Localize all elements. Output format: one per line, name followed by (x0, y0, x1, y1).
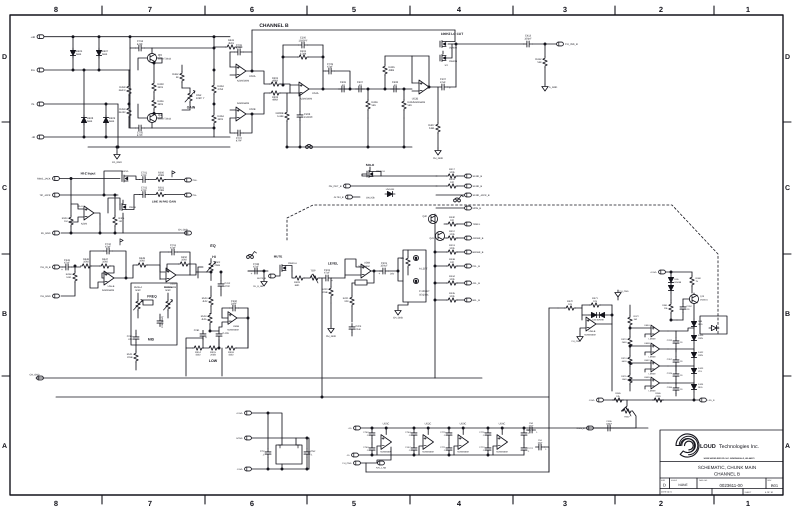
capacitor C50 filter (527, 422, 539, 434)
wire to lo out (448, 44, 456, 87)
resistor R381 20k (662, 300, 673, 320)
svg-text:UNGAIN: UNGAIN (386, 188, 395, 191)
node IN input connector J2 (31, 68, 130, 72)
capacitor C768 bot (479, 427, 491, 443)
connector -15 rail bot (346, 453, 524, 457)
svg-text:MUTE_B: MUTE_B (257, 277, 266, 280)
svg-text:47uF: 47uF (440, 81, 446, 84)
svg-text:8: 8 (54, 499, 58, 508)
svg-text:R386: R386 (655, 392, 661, 395)
resistor R370 (558, 300, 582, 310)
wire top long feedback (252, 30, 455, 52)
svg-text:2k49: 2k49 (622, 341, 628, 344)
svg-text:51k1: 51k1 (66, 276, 72, 279)
svg-text:REV.: REV. (768, 479, 773, 482)
capacitor C762 bot (363, 427, 375, 443)
svg-text:R380: R380 (696, 277, 702, 280)
capacitor C226 (61, 259, 80, 272)
svg-text:+: + (205, 336, 207, 340)
connector row4 MON (436, 206, 481, 210)
svg-text:24PF: 24PF (231, 303, 238, 306)
svg-text:20kB: 20kB (215, 264, 221, 267)
svg-text:C763: C763 (363, 446, 369, 449)
ic U57 regulator box (276, 441, 302, 464)
svg-text:R372: R372 (634, 315, 640, 318)
op-amp U49A (71, 204, 100, 226)
resistor R386 (653, 392, 664, 402)
connector CH_GND eq (40, 294, 59, 298)
connector CH_GND right (178, 228, 191, 235)
svg-text:CH_GND: CH_GND (29, 373, 39, 376)
svg-text:100: 100 (450, 181, 455, 184)
svg-text:A LEFT: A LEFT (419, 268, 428, 271)
svg-text:R374: R374 (621, 357, 627, 360)
svg-text:6: 6 (250, 5, 254, 14)
capacitor C262 (680, 299, 693, 320)
svg-text:C762: C762 (363, 431, 369, 434)
svg-text:SCALE: SCALE (671, 479, 678, 482)
svg-text:-48: -48 (31, 136, 35, 139)
resistor R301 (155, 186, 185, 196)
wire gain out to opamps (152, 47, 215, 129)
svg-text:C764: C764 (405, 431, 411, 434)
text EQ (210, 244, 216, 248)
svg-text:+: + (251, 271, 253, 275)
wire bottom rail mic (286, 118, 412, 148)
svg-text:2N4401: 2N4401 (700, 298, 708, 301)
led D100 red (691, 304, 703, 329)
capacitor C281 (194, 329, 207, 348)
svg-text:47uF: 47uF (253, 266, 259, 269)
svg-text:24.9R: 24.9R (119, 111, 126, 114)
capacitor C711 feedback2 (160, 244, 190, 271)
connector TIP_JACK (37, 177, 120, 181)
svg-text:10k0: 10k0 (139, 260, 145, 263)
svg-text:20kB: 20kB (158, 189, 164, 192)
svg-text:ATF: ATF (128, 338, 133, 341)
capacitor C767 bot (440, 443, 452, 456)
svg-text:+: + (379, 271, 381, 275)
svg-text:4k05: 4k05 (201, 318, 207, 321)
connector -15V pwr (237, 467, 309, 471)
svg-text:U50C: U50C (460, 423, 467, 426)
transistor Q20 (683, 293, 708, 304)
svg-text:R385: R385 (615, 392, 621, 395)
resistor R374 ladder (621, 356, 632, 374)
switch S2 C RIGHT (413, 278, 430, 296)
svg-text:PA_GND: PA_GND (112, 161, 122, 164)
ground level (326, 303, 336, 338)
capacitor C705 (130, 110, 152, 137)
svg-text:U54D: U54D (644, 376, 650, 379)
svg-text:U56-B: U56-B (589, 330, 596, 333)
zone row labels (2, 54, 790, 450)
svg-text:5: 5 (352, 5, 356, 14)
ground gain cell (112, 146, 122, 164)
connector mute gate (257, 271, 280, 280)
dashed net VU route (287, 205, 718, 335)
connector RING_JACK (39, 193, 118, 197)
connector LED_B (700, 398, 715, 402)
svg-text:D: D (663, 483, 666, 488)
svg-text:50kC: 50kC (135, 289, 141, 292)
svg-text:LOW: LOW (209, 359, 218, 363)
svg-text:NJM4580M: NJM4580M (496, 451, 507, 454)
diode D409 (103, 103, 115, 138)
svg-text:U55-B: U55-B (108, 285, 115, 288)
svg-text:20kB: 20kB (210, 354, 216, 357)
capacitor C202 level (323, 269, 346, 283)
connector CH_GND rail (29, 373, 43, 380)
svg-text:51k: 51k (537, 61, 542, 64)
svg-text:U55C: U55C (383, 423, 390, 426)
svg-text:5k6: 5k6 (408, 104, 413, 107)
resistor R459 (119, 103, 132, 128)
resistor R435 row10 (435, 292, 480, 302)
jumper W2 (306, 144, 313, 148)
svg-text:GLB: GLB (76, 53, 81, 56)
svg-text:SEND_B: SEND_B (473, 175, 483, 178)
wire hi-z bottom (61, 213, 188, 234)
svg-text:+: + (61, 268, 63, 272)
svg-text:TRSEL: TRSEL (473, 223, 481, 226)
wire led column joins (668, 319, 694, 383)
flag test point B (120, 239, 123, 245)
svg-text:6.34k: 6.34k (300, 53, 307, 56)
transistor Q41 (429, 231, 444, 240)
op-amp U50C bot3 (454, 423, 469, 456)
wire vu trim (614, 411, 637, 428)
capacitor C788 (248, 263, 268, 276)
capacitor C764 bot (405, 427, 417, 443)
resistor R202 feedback (283, 45, 323, 59)
svg-text:RED: RED (698, 323, 703, 326)
resistor R385 (613, 392, 624, 402)
ground lo out (542, 84, 558, 91)
svg-text:3k01: 3k01 (218, 118, 224, 121)
svg-text:HI-Z Input: HI-Z Input (81, 172, 97, 176)
capacitor C763 bot (363, 443, 375, 456)
svg-text:CH_GND: CH_GND (393, 317, 403, 320)
potentiometer trim vu (622, 400, 633, 419)
svg-text:SW1B: SW1B (129, 206, 136, 209)
wire vertical x323 (321, 278, 323, 398)
text SOLO (366, 163, 375, 167)
resistor R304 (62, 177, 73, 234)
resistor R503 (201, 314, 212, 332)
svg-text:0023611-00: 0023611-00 (719, 483, 743, 488)
svg-text:IN+: IN+ (31, 69, 36, 72)
svg-text:C147: C147 (405, 446, 411, 449)
svg-text:10uF: 10uF (529, 425, 535, 428)
capacitor C710 feedback (90, 243, 126, 272)
svg-text:A: A (785, 443, 790, 450)
svg-text:CH_GND: CH_GND (433, 157, 443, 160)
svg-text:A_GND: A_GND (549, 86, 558, 89)
box assign switch (403, 250, 426, 302)
svg-text:3k01: 3k01 (158, 86, 164, 89)
resistor R431 top (213, 36, 242, 71)
svg-text:U54B: U54B (644, 342, 650, 345)
svg-text:LM339: LM339 (649, 373, 656, 376)
svg-text:CH_GND: CH_GND (326, 335, 336, 338)
connector XX_OUT_B (557, 42, 578, 46)
svg-text:6k19: 6k19 (622, 360, 628, 363)
resistor R507 box (143, 297, 153, 306)
svg-text:47pF: 47pF (170, 247, 176, 250)
svg-text:NONE: NONE (678, 483, 687, 487)
svg-text:NJM4580M: NJM4580M (422, 451, 433, 454)
wire bottom vu rail (604, 399, 700, 401)
wire hi wiper (198, 267, 203, 278)
svg-text:U56B: U56B (364, 262, 370, 265)
svg-text:C267: C267 (667, 358, 673, 361)
text HI-Z Input (81, 172, 97, 176)
resistor R380 (690, 272, 702, 293)
svg-text:49k9: 49k9 (272, 80, 278, 83)
svg-text:100pF: 100pF (606, 423, 613, 426)
svg-text:Q3: Q3 (158, 53, 162, 57)
resistor R373 ladder (621, 337, 632, 356)
svg-text:7: 7 (148, 499, 152, 508)
zone ticks top/bottom (102, 6, 714, 504)
svg-text:GRN: GRN (698, 337, 703, 340)
svg-text:47PF: 47PF (137, 134, 144, 137)
resistor R300 (155, 171, 185, 181)
capacitor C260 (222, 300, 248, 318)
svg-text:D: D (785, 54, 790, 61)
svg-text:4k02: 4k02 (202, 300, 208, 303)
svg-text:U55B: U55B (233, 325, 239, 328)
resistor R422 box (352, 271, 374, 290)
capacitor C702 (134, 186, 154, 197)
svg-text:51k1: 51k1 (429, 127, 435, 130)
capacitor C406 (339, 81, 348, 92)
capacitor C412 hi (218, 271, 231, 296)
svg-text:50kC: 50kC (165, 289, 171, 292)
svg-text:NJM4580M: NJM4580M (457, 451, 468, 454)
resistor R303 (252, 89, 290, 114)
svg-text:10k0: 10k0 (181, 259, 187, 262)
svg-text:LEVEL: LEVEL (328, 262, 338, 266)
svg-text:AGND: AGND (236, 437, 243, 440)
node +48V input connector J1 (31, 35, 230, 39)
svg-text:47uF: 47uF (64, 262, 70, 265)
svg-text:C286: C286 (667, 386, 673, 389)
svg-text:HI: HI (212, 255, 215, 259)
ground assign (393, 302, 408, 320)
text MID (148, 338, 155, 342)
wire bot row joins (366, 447, 391, 470)
svg-text:MON_B: MON_B (473, 207, 482, 210)
capacitor C706 (230, 44, 253, 72)
svg-text:10uF: 10uF (538, 442, 544, 445)
svg-text:100k: 100k (449, 295, 455, 298)
svg-text:.22: .22 (341, 84, 345, 87)
wire eq node2 (190, 271, 211, 275)
svg-text:100: 100 (450, 261, 455, 264)
svg-text:GLB: GLB (102, 53, 107, 56)
capacitor C200 feedback (283, 37, 323, 48)
svg-text:GAIN: GAIN (187, 106, 196, 110)
svg-text:10k0: 10k0 (83, 261, 89, 264)
svg-text:C281: C281 (194, 329, 200, 332)
svg-text:47PF: 47PF (236, 140, 243, 143)
svg-text:68D: 68D (295, 284, 300, 287)
svg-text:100uF: 100uF (380, 265, 388, 268)
resistor R501 mid (127, 350, 138, 370)
resistor R407 (428, 87, 440, 148)
svg-text:10k0: 10k0 (102, 261, 108, 264)
resistor R467 shunt2 (402, 88, 414, 118)
resistor R305 (113, 194, 125, 234)
svg-text:C771: C771 (440, 446, 446, 449)
svg-text:CH_GND: CH_GND (40, 295, 50, 298)
svg-text:SEND_B: SEND_B (473, 185, 483, 188)
svg-text:C: C (2, 185, 7, 192)
jumper W3 (247, 252, 257, 259)
svg-text:C-ON: C-ON (223, 332, 229, 335)
title 100Hz LO CUT (441, 32, 463, 36)
flag test point A (172, 171, 175, 177)
op-amp U55B (159, 252, 190, 289)
resistor R514 (186, 346, 207, 357)
svg-text:SW1A: SW1A (122, 170, 129, 173)
ground vu1 (571, 334, 583, 343)
svg-text:U54A: U54A (644, 324, 650, 327)
text LINE IN PAD GAIN (152, 200, 176, 204)
resistor R461 (152, 97, 164, 113)
svg-text:20kB: 20kB (127, 356, 133, 359)
op-amp U54C led (629, 359, 668, 376)
resistor R506B pot (164, 286, 173, 318)
resistor R417 row1 (436, 168, 482, 178)
svg-text:C: C (785, 185, 790, 192)
capacitor C766 bot (440, 427, 452, 443)
op-amp U52B (385, 56, 438, 104)
svg-text:B01: B01 (771, 483, 779, 488)
capacitor C306 vu (605, 420, 614, 431)
svg-text:20kB: 20kB (322, 291, 328, 294)
svg-text:2: 2 (659, 5, 663, 14)
capacitor C223 led4 (667, 383, 684, 396)
node -48V input connector J4 (31, 135, 230, 139)
svg-text:-15VA: -15VA (237, 468, 243, 471)
svg-text:RED: RED (698, 386, 703, 389)
connector GAIN_B vu (576, 426, 604, 430)
capacitor C701 (136, 171, 154, 182)
transistor Q3 (138, 48, 172, 70)
wire pwr box net (281, 438, 309, 470)
text FREQ (147, 295, 157, 299)
svg-text:MUTE: MUTE (274, 255, 283, 259)
svg-text:49k9: 49k9 (389, 69, 395, 72)
resistor R412 (535, 43, 547, 84)
svg-text:PFL_B: PFL_B (473, 265, 481, 268)
zone ticks left/right (2, 122, 791, 376)
svg-text:U50B: U50B (249, 108, 256, 111)
capacitor C51 filter (536, 439, 550, 472)
svg-text:1500PF: 1500PF (298, 39, 308, 42)
svg-text:5k6: 5k6 (372, 104, 377, 107)
connector +15V led (650, 270, 692, 274)
capacitor C203 out (349, 324, 362, 337)
svg-text:2: 2 (659, 499, 663, 508)
led D104 red2 (691, 376, 704, 400)
svg-text:C220: C220 (667, 339, 673, 342)
svg-text:LOUD: LOUD (700, 444, 716, 450)
wire lo out rail (455, 43, 524, 45)
connector gnd rail bot (342, 461, 366, 465)
resistor R448 shunt (61, 265, 77, 296)
box peak led (700, 316, 727, 334)
svg-text:3: 3 (563, 499, 567, 508)
svg-text:16220 WOOD-RED RD. N.E. WOODIN: 16220 WOOD-RED RD. N.E. WOODINVILLE, WA … (704, 457, 756, 460)
svg-text:10kC Y: 10kC Y (196, 97, 205, 100)
svg-text:MID: MID (148, 338, 155, 342)
led D103 yel (691, 360, 704, 376)
resistor R449 (137, 257, 166, 272)
svg-text:B: B (2, 311, 7, 318)
svg-text:PA_GND: PA_GND (41, 232, 51, 235)
capacitor C282 dnp (157, 314, 164, 328)
svg-text:FREQ: FREQ (147, 295, 157, 299)
svg-text:CH_INS_B: CH_INS_B (565, 43, 578, 46)
svg-text:NJM4580M: NJM4580M (300, 98, 312, 101)
svg-text:C282 (DNP): C282 (DNP) (161, 316, 164, 328)
svg-text:GLB: GLB (109, 120, 114, 123)
svg-text:CH-: CH- (193, 194, 197, 197)
svg-text:C776: C776 (479, 431, 485, 434)
wire hi mid net (209, 314, 219, 333)
svg-text:100: 100 (450, 219, 455, 222)
capacitor C285 mid (127, 330, 139, 350)
resistor R371 (582, 297, 612, 307)
svg-text:Q40: Q40 (422, 215, 427, 218)
resistor R450 (167, 256, 196, 272)
capacitor C413 (524, 35, 557, 47)
svg-text:4k02: 4k02 (195, 354, 201, 357)
transistor Q40 (422, 214, 437, 223)
op-amp U54D led (629, 376, 668, 393)
connector +15 rail bot (348, 426, 648, 430)
svg-text:CH_GND: CH_GND (571, 340, 581, 343)
connector CH_OUT_B (329, 184, 437, 188)
svg-text:AFDBK_B: AFDBK_B (473, 237, 484, 240)
svg-text:D103: D103 (698, 367, 704, 370)
svg-text:1: 1 (746, 499, 750, 508)
svg-text:C262: C262 (687, 305, 693, 308)
svg-text:47pF: 47pF (141, 174, 147, 177)
resistor R430 row5 (444, 216, 481, 226)
svg-text:47PF: 47PF (236, 47, 243, 50)
svg-text:47pF: 47pF (327, 66, 333, 69)
svg-text:D: D (2, 54, 7, 61)
op-amp U50B (230, 102, 256, 121)
title block text (661, 444, 779, 494)
svg-text:-15VA: -15VA (589, 399, 595, 402)
svg-text:6: 6 (250, 499, 254, 508)
svg-text:7: 7 (148, 5, 152, 14)
svg-text:CH+: CH+ (193, 179, 198, 182)
resistor R416 row2 (436, 178, 482, 188)
svg-text:1500PF: 1500PF (304, 116, 314, 119)
svg-text:15k0: 15k0 (622, 378, 628, 381)
wire eq node1 (126, 265, 137, 278)
svg-text:R387: R387 (624, 416, 630, 419)
resistor R462 (172, 65, 184, 88)
svg-text:8: 8 (54, 5, 58, 14)
